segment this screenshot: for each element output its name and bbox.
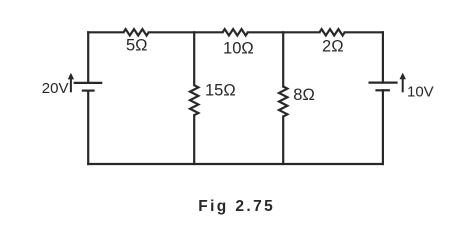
wire node B vertical lower [282, 117, 284, 165]
wire left vertical lower (battery V1 to bottom) [87, 91, 89, 164]
wire top-right segment [345, 31, 383, 33]
svg-text:2Ω: 2Ω [322, 38, 344, 56]
svg-text:Fig 2.75: Fig 2.75 [198, 198, 275, 215]
svg-text:5Ω: 5Ω [126, 37, 148, 55]
resistor R1 5Ω zigzag [124, 29, 149, 35]
battery V1 long plate (+) [74, 82, 103, 84]
resistor R2 10Ω zigzag [223, 29, 248, 35]
wire top between R1 and node A [149, 31, 223, 33]
svg-text:20V: 20V [42, 80, 69, 97]
wire top between R2 and node B [248, 31, 320, 33]
battery V1 short plate (-) [82, 89, 95, 91]
current direction arrow at V1 [70, 79, 72, 93]
resistor R4 15Ω zigzag [190, 85, 198, 115]
wire bottom segment [88, 163, 383, 165]
wire node A vertical lower [193, 115, 195, 164]
arrowhead of V2 arrow [400, 73, 406, 80]
wire node A vertical upper [193, 32, 195, 85]
wire right vertical lower (battery V2 to bottom) [382, 90, 384, 164]
wire right vertical upper (to battery V2) [382, 32, 384, 82]
wire top-left segment [88, 31, 123, 33]
arrowhead of V1 arrow [68, 73, 74, 80]
svg-text:10Ω: 10Ω [223, 40, 254, 58]
current direction arrow at V2 [402, 79, 404, 93]
wire node B vertical upper [282, 32, 284, 86]
battery V2 short plate (-) [375, 89, 390, 91]
resistor R3 2Ω zigzag [320, 29, 345, 35]
resistor R5 8Ω zigzag [279, 87, 287, 117]
svg-text:8Ω: 8Ω [293, 86, 315, 104]
wire left vertical upper (to battery V1) [87, 32, 89, 83]
battery V2 long plate (+) [369, 81, 398, 83]
svg-text:10V: 10V [407, 84, 434, 101]
svg-text:15Ω: 15Ω [205, 82, 236, 100]
